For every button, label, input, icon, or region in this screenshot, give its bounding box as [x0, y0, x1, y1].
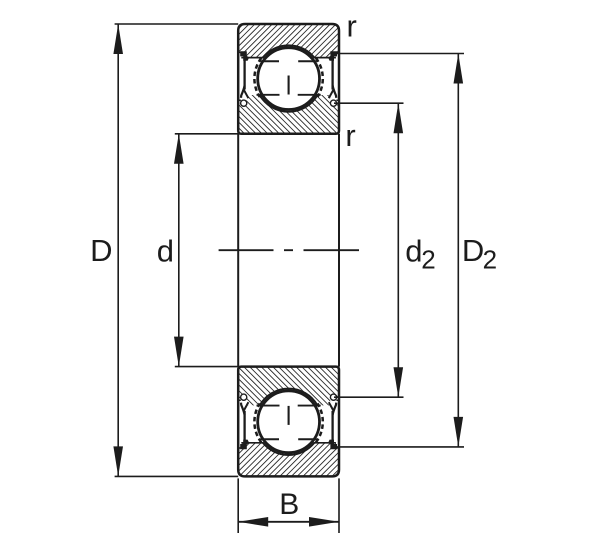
svg-text:d: d [157, 234, 174, 269]
svg-text:2: 2 [483, 245, 497, 275]
svg-text:r: r [347, 9, 357, 44]
svg-text:2: 2 [421, 245, 435, 275]
svg-text:D: D [462, 233, 484, 268]
svg-text:B: B [279, 488, 299, 521]
svg-text:d: d [405, 233, 422, 268]
svg-text:D: D [90, 233, 112, 268]
svg-text:r: r [345, 118, 355, 153]
